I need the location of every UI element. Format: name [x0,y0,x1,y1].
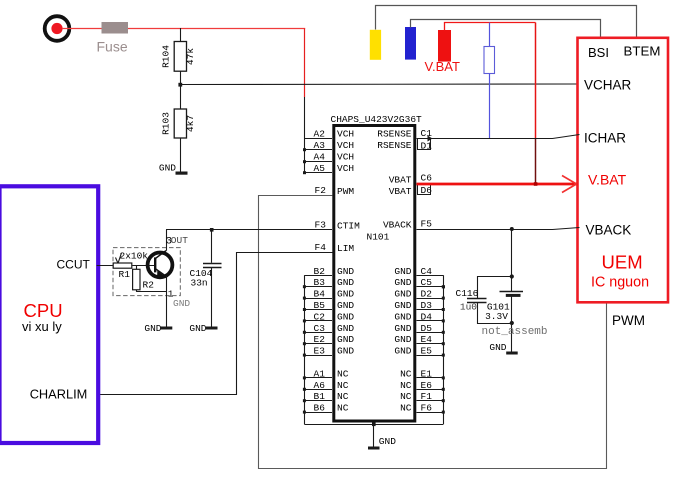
wire blue testpoint to BSI [411,20,601,38]
svg-text:NC: NC [400,391,412,402]
svg-text:NC: NC [400,368,412,379]
pin ladder right C4-E5 E1-F6 [417,276,444,413]
svg-text:CTIM: CTIM [337,220,360,231]
IC CHAPS charge chip N101 [331,114,423,421]
svg-text:2x10k: 2x10k [120,251,149,262]
wire VBACK vertical [511,229,513,291]
ground under G101 [489,342,517,354]
wire CTIM net [166,229,332,231]
svg-text:GND: GND [394,300,411,311]
svg-text:VCH: VCH [337,163,354,174]
svg-text:E3: E3 [314,346,326,357]
resistor R103 4k7 [161,85,196,172]
fuse F1 [97,22,129,54]
svg-text:F6: F6 [421,403,433,414]
svg-text:NC: NC [337,368,349,379]
chip right pin names VBAT x2 [389,175,412,197]
svg-text:B4: B4 [314,289,326,300]
chip right pin names GND x8 [394,266,411,357]
svg-text:D4: D4 [421,311,433,322]
svg-text:GND: GND [394,277,411,288]
svg-text:A4: A4 [314,152,326,163]
node rail center junction [372,423,376,427]
svg-text:NC: NC [400,403,412,414]
capacitor C116 1u0 [456,277,512,324]
svg-text:C116: C116 [456,288,479,299]
test point yellow [370,30,381,60]
svg-text:GND: GND [337,289,354,300]
svg-text:VCH: VCH [337,140,354,151]
arrow 2x10k mark [116,253,122,263]
svg-text:NC: NC [337,391,349,402]
svg-text:VCHAR: VCHAR [584,78,632,93]
svg-text:33n: 33n [191,278,208,289]
chip left pin names NC x4 [337,368,349,413]
svg-text:A6: A6 [314,380,326,391]
svg-text:GND: GND [337,300,354,311]
svg-text:F4: F4 [315,242,327,253]
svg-text:3.3V: 3.3V [485,311,508,322]
svg-text:E4: E4 [421,334,433,345]
svg-text:CPU: CPU [24,300,63,321]
ground chip GND symbol [368,424,396,449]
svg-text:B1: B1 [314,391,326,402]
wire VBACK net [417,228,580,230]
svg-text:D5: D5 [421,323,433,334]
svg-text:GND: GND [379,436,396,447]
wire ICHAR net [417,135,580,139]
svg-text:LIM: LIM [337,243,354,254]
svg-text:A1: A1 [314,368,326,379]
svg-text:RSENSE: RSENSE [377,129,412,140]
wire red V.BAT vertical drop [535,23,537,139]
chip right pin names RSENSE x2 [377,129,412,152]
test point blue [405,27,416,60]
wire chip bottom GND rail [304,424,443,426]
wire charger red from plug to fuse [62,28,102,30]
svg-text:V.BAT: V.BAT [588,172,627,188]
svg-text:GND: GND [394,289,411,300]
svg-text:4k7: 4k7 [185,115,196,132]
wire PWM net chip to UEM loop [259,196,607,469]
svg-text:GND: GND [189,323,206,334]
arrow V.BAT into UEM [562,176,577,193]
svg-text:C4: C4 [421,266,433,277]
node VBACK junction [510,227,514,231]
svg-text:GND: GND [394,323,411,334]
IC UEM box [578,38,669,303]
svg-text:GND: GND [394,334,411,345]
svg-text:CCUT: CCUT [57,257,91,271]
pin ladder B2-E3 and A1-B6 left [304,276,332,413]
svg-text:A2: A2 [314,129,326,140]
wire red V.BAT top run [445,23,536,31]
svg-text:F3: F3 [315,219,327,230]
svg-text:R1: R1 [119,269,131,280]
svg-text:A3: A3 [314,140,326,151]
svg-text:B2: B2 [314,266,326,277]
svg-text:Fuse: Fuse [97,38,128,54]
svg-text:GND: GND [489,342,506,353]
wire red V.BAT vertical lower dark segment [535,138,537,184]
wire below battery [511,297,513,352]
svg-text:R2: R2 [143,279,155,290]
svg-text:C3: C3 [314,323,326,334]
svg-text:PWM: PWM [337,186,354,197]
ground under transistor [144,323,172,334]
svg-text:GND: GND [337,346,354,357]
svg-text:VBACK: VBACK [383,220,412,231]
node dots A bus [303,148,306,174]
svg-text:C6: C6 [421,173,433,184]
svg-text:VBAT: VBAT [389,175,412,186]
svg-text:GND: GND [394,266,411,277]
svg-text:CHAPS_U423V2G36T: CHAPS_U423V2G36T [331,114,423,125]
svg-text:B3: B3 [314,277,326,288]
transistor Q1 NPN [148,251,173,278]
svg-text:GND: GND [173,298,190,309]
svg-text:D3: D3 [421,300,433,311]
chip right pin names NC x4 [400,368,412,413]
svg-text:E1: E1 [421,368,433,379]
wire emitter down [166,276,168,327]
test point red V.BAT [438,30,451,62]
svg-text:R103: R103 [161,112,172,135]
wire collector up to CTIM [166,230,168,251]
IC CPU box [0,186,98,443]
svg-text:R104: R104 [161,45,172,68]
svg-text:C2: C2 [314,311,326,322]
svg-text:F5: F5 [421,219,433,230]
node dots left bus [303,285,306,413]
svg-text:VCH: VCH [337,129,354,140]
svg-text:RSENSE: RSENSE [377,140,412,151]
svg-text:IC nguon: IC nguon [591,274,649,290]
svg-text:V.BAT: V.BAT [425,59,460,74]
chip left pin names GND x8 [337,266,354,357]
wire R2 bottom to emitter [136,291,166,293]
wire yellow testpoint to BTEM [376,6,637,38]
svg-text:47k: 47k [185,48,196,65]
svg-text:F1: F1 [421,391,433,402]
wire black VCH feed vertical [304,97,306,173]
svg-text:GND: GND [337,311,354,322]
wire left GND bus [304,275,306,424]
wire charger red vertical drop [304,29,306,98]
svg-text:VCH: VCH [337,152,354,163]
svg-text:E5: E5 [421,346,433,357]
pin ladder A2-A5 [304,139,332,173]
capacitor C104 33n [190,230,222,327]
wire CCUT net [97,265,114,267]
svg-text:GND: GND [337,323,354,334]
svg-text:BSI: BSI [588,45,609,60]
svg-text:N101: N101 [367,231,390,242]
svg-text:GND: GND [144,323,161,334]
svg-text:E6: E6 [421,380,433,391]
svg-text:A5: A5 [314,163,326,174]
svg-text:ICHAR: ICHAR [584,131,626,146]
svg-text:D2: D2 [421,289,433,300]
svg-text:CHARLIM: CHARLIM [30,387,88,402]
ground under R103 [159,163,188,175]
svg-text:UEM: UEM [602,252,643,273]
svg-text:F2: F2 [315,185,327,196]
wire right GND bus [443,275,445,424]
box dashed R1 R2 group [113,248,180,296]
ground under C104 [189,323,217,334]
svg-text:GND: GND [337,266,354,277]
resistor blue BSI pull [484,23,495,139]
wire VCHAR net to UEM [180,83,579,86]
node VBAT red junction [534,182,538,186]
wire LIM net [97,253,333,395]
wire R1 to base [132,265,155,267]
pin box C1 D1 RSENSE [418,128,433,151]
svg-text:GND: GND [159,163,176,174]
connector charger plug [45,16,70,41]
wire charger red from fuse to corner [128,28,305,30]
resistor R104 47k [161,28,196,85]
battery G101 3.3V [485,292,523,323]
svg-text:B6: B6 [314,403,326,414]
svg-text:VBAT: VBAT [389,186,412,197]
svg-text:E2: E2 [314,334,326,345]
wire VBAT red thick net [417,183,578,186]
node C116 top junction [510,274,514,278]
resistor R1 [113,263,132,280]
svg-text:BTEM: BTEM [624,44,661,59]
pin box C6 D6 VBAT [418,173,433,197]
svg-text:NC: NC [337,380,349,391]
svg-text:GND: GND [337,334,354,345]
node CTIM/C104 junction [210,228,214,232]
node C116 bottom junction [510,321,514,325]
svg-text:NC: NC [337,403,349,414]
svg-text:GND: GND [394,346,411,357]
svg-text:1u0: 1u0 [460,302,477,313]
resistor R2 [133,265,155,292]
svg-text:B5: B5 [314,300,326,311]
svg-text:PWM: PWM [612,313,645,328]
node junction R104/R103/VCHAR [178,83,182,87]
node dots right bus [442,285,445,413]
chip left pin names VCH x4 [337,129,354,175]
svg-text:VBACK: VBACK [586,223,632,238]
svg-text:OUT: OUT [171,235,188,246]
svg-text:C5: C5 [421,277,433,288]
svg-text:GND: GND [394,311,411,322]
svg-text:NC: NC [400,380,412,391]
svg-text:not_assemb: not_assemb [482,326,548,338]
svg-text:vi xu ly: vi xu ly [22,319,62,334]
svg-text:GND: GND [337,277,354,288]
